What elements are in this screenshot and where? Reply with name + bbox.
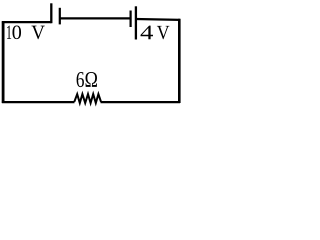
wire: left border <box>2 21 5 103</box>
wire: bottom-right segment <box>101 101 181 103</box>
label: V of "10 V" <box>32 26 45 40</box>
label: ohm symbol of resistor value <box>86 72 98 87</box>
label: 1 of "10 V" <box>7 26 11 39</box>
label: 6 of resistor value <box>77 72 84 87</box>
battery B1 (10 V) long plate (+) <box>50 3 52 23</box>
label: 0 of "10 V" <box>12 25 21 39</box>
resistor R1 (6 ohm) zigzag <box>74 94 101 103</box>
battery B2 (4 V) short plate (-) <box>130 11 132 28</box>
label: 4 of "4 V" <box>141 26 153 40</box>
label: V of "4 V" <box>157 26 170 39</box>
wire: top-right segment <box>136 18 180 21</box>
battery B1 (10 V) short plate (-) <box>59 8 61 25</box>
wire: bottom-left segment <box>2 101 75 103</box>
wire: right border <box>178 19 181 103</box>
wire: top-middle segment <box>60 17 131 19</box>
battery B2 (4 V) long plate (+) <box>135 6 137 39</box>
wire: top-left segment <box>2 21 52 23</box>
